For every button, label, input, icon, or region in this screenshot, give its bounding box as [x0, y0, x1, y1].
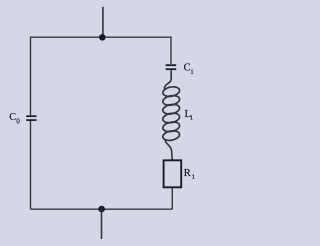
coil turn 2	[162, 94, 180, 106]
inductor L1 exit wire	[165, 139, 172, 160]
resistor R1 body	[164, 160, 182, 187]
coil turn 3	[162, 103, 180, 115]
top horizontal wire	[31, 36, 172, 38]
capacitor C1 top plate	[166, 64, 177, 66]
bottom horizontal wire	[31, 208, 173, 210]
top node junction	[99, 34, 106, 41]
right wire upper segment	[170, 37, 172, 65]
coil turn 4	[162, 112, 180, 124]
top stub wire	[102, 7, 104, 37]
left wire upper segment	[30, 37, 32, 116]
coil turn 1	[162, 85, 180, 97]
inductor L1 entry wire	[164, 70, 171, 89]
coil turn 6	[162, 129, 180, 141]
capacitor C0 top plate	[26, 115, 36, 117]
capacitor C1 bottom plate	[166, 68, 177, 70]
bottom node junction	[98, 206, 105, 213]
bottom stub wire	[101, 209, 103, 239]
capacitor C0 bottom plate	[26, 119, 36, 121]
wire R1 to bottom	[171, 188, 173, 210]
left wire lower segment	[30, 121, 32, 209]
coil turn 5	[162, 121, 180, 133]
